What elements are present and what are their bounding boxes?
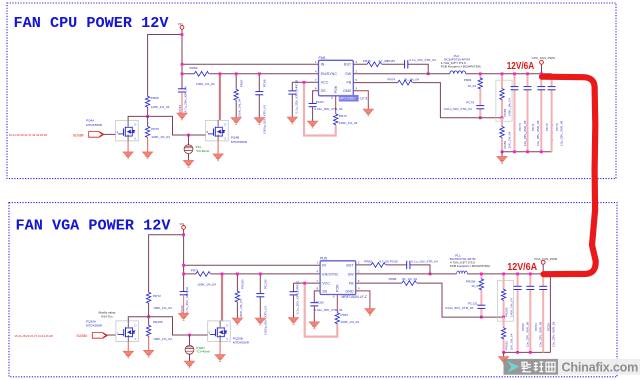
svg-text:10u_25V_X5R_06: 10u_25V_X5R_06 [551,321,555,347]
svg-text:PR76: PR76 [363,59,371,63]
junction VIN [181,33,184,36]
svg-text:PC62: PC62 [180,305,184,313]
svg-text:PC54: PC54 [534,323,538,331]
svg-text:PC60: PC60 [316,300,324,304]
transistor PQ20A [116,321,138,342]
ground PC62 [178,313,188,320]
ground bus bottom [504,352,551,356]
svg-text:100K_1%_04: 100K_1%_04 [151,105,170,109]
svg-text:4.7u_25V_X5R_06: 4.7u_25V_X5R_06 [185,287,189,313]
svg-text:0.1u_10V_XTR_04: 0.1u_10V_XTR_04 [411,260,438,264]
capacitor PC89 [405,60,408,68]
inductor PL2 [450,71,466,74]
svg-text:PR66: PR66 [151,96,159,100]
resistor PR291 [503,317,505,352]
wire net SS bottom [314,291,320,303]
svg-text:VIN: VIN [179,222,184,226]
svg-text:PC130: PC130 [263,279,267,289]
ground PC60 [309,322,319,329]
svg-text:PC61: PC61 [296,280,300,288]
svg-text:GND: GND [343,89,352,93]
svg-text:PC59: PC59 [390,260,398,264]
svg-text:1: 1 [315,60,317,64]
junction ground bus left [501,150,504,153]
svg-text:SW: SW [348,272,354,276]
capacitor PC65 [288,91,296,94]
svg-text:PR294: PR294 [466,279,476,283]
svg-text:FB: FB [349,282,354,286]
resistor PR295 [146,325,150,337]
port SUS8# top [89,132,104,138]
svg-text:PR295: PR295 [153,320,163,324]
svg-text:100K_1%_04: 100K_1%_04 [151,135,170,139]
capacitor PC64 [178,89,186,92]
svg-text:PR71: PR71 [191,269,199,273]
svg-text:PR98: PR98 [389,277,397,281]
jumper PJ4 [188,135,190,160]
svg-text:0.1u_25V_XTR_04: 0.1u_25V_XTR_04 [296,288,300,315]
wire net EN bottom [184,273,321,275]
svg-text:MTDK556R: MTDK556R [86,123,103,127]
resistor PR292 chain (pink net) [503,274,505,317]
wire PQ4B drain (pink net) [219,74,221,121]
ground PU6 [363,109,373,116]
wire net IN [182,63,319,65]
hand-drawn red annotation line [542,77,596,275]
resistor PR70 [145,126,149,138]
svg-text:2: 2 [358,270,360,274]
junction IN bottom [182,264,185,267]
svg-text:-LF-Z: -LF-Z [359,97,367,101]
resistor PR294 chain [480,274,482,317]
wire VIN drop and branch [148,29,182,95]
resistor PR97 [335,312,339,324]
svg-text:PC70: PC70 [555,123,559,131]
junction VIN bottom [182,233,185,236]
svg-text:*CV-40mil: *CV-40mil [196,350,210,354]
wire PQ20A source [127,342,129,352]
svg-text:PC65: PC65 [294,79,298,87]
svg-text:10_04: 10_04 [468,84,477,88]
junction PR290 [236,273,239,276]
svg-text:1000p_50V_XTR_04: 1000p_50V_XTR_04 [263,306,267,335]
svg-text:3K_1%_04: 3K_1%_04 [402,277,417,281]
svg-text:100K_1%_04: 100K_1%_04 [239,299,243,318]
junction PJ4 node [187,134,190,137]
wire PQ4A drain to gate of PQ4B [128,116,206,135]
svg-text:VGA_FAN_PWR: VGA_FAN_PWR [534,257,558,261]
ground bus symbol bottom [498,357,508,364]
resistor PR76 [367,62,382,67]
op-amp U1 : regulator PU6 [315,56,357,100]
wire PR66 to junction [147,108,149,126]
ground PQ20A [123,351,133,358]
wire 12V rail bottom [467,274,550,353]
svg-text:PR74: PR74 [387,78,395,82]
svg-text:VCC: VCC [322,282,330,286]
resistor PR290 [236,274,238,318]
svg-text:140K_1%_04: 140K_1%_04 [509,298,513,317]
capacitor PC63 [309,104,317,107]
wire net BST [353,64,428,74]
svg-text:PCB Footprint = BCIHP0730A: PCB Footprint = BCIHP0730A [450,264,490,268]
svg-text:MTDK556R: MTDK556R [86,324,103,328]
svg-text:PC79: PC79 [466,100,474,104]
sheet border box 1 (FAN CPU POWER) [7,3,616,179]
svg-text:VCC: VCC [321,81,329,85]
svg-text:PC53: PC53 [547,323,551,331]
svg-text:6: 6 [333,295,335,299]
wire net IN bottom [184,264,321,266]
svg-text:15,21,28,29,31,37,43,44,46,48: 15,21,28,29,31,37,43,44,46,48 [15,334,54,338]
resistor PR66 [145,96,149,108]
svg-text:0.01u_50V_XTR_04: 0.01u_50V_XTR_04 [444,107,472,111]
transistor PQ20B [208,321,231,342]
ground PU5 [365,309,375,316]
ground PC64 [177,113,187,120]
svg-text:PR67: PR67 [239,79,243,87]
svg-text:4: 4 [315,70,317,74]
ground PQ4B [213,154,223,161]
wire PQ20B drain (pink net) [221,274,223,321]
svg-text:SUS8#: SUS8# [73,133,84,137]
junction drain bottom [221,273,224,276]
svg-text:CPU_FAN_PWR: CPU_FAN_PWR [532,56,556,60]
svg-text:PR291: PR291 [505,341,509,351]
svg-text:8: 8 [315,87,317,91]
svg-text:PR292: PR292 [505,307,509,317]
svg-text:15,21,25,29,31,37,43,44,46,48: 15,21,25,29,31,37,43,44,46,48 [9,133,48,137]
junction VCC bottom [303,282,306,285]
capacitor PC59 [407,261,410,269]
svg-text:*CV-40mil: *CV-40mil [196,149,210,153]
jumper PJ207 [189,335,191,361]
wire net FB bottom [356,283,504,317]
capacitor PC60 [310,303,318,306]
ground PQ20B [215,355,225,362]
resistor PR83 chain (pink net) [501,74,503,118]
svg-text:EN/SYNC: EN/SYNC [321,72,338,76]
ground PR70 [142,152,152,159]
junction rail CPU_FAN_PWR [540,72,543,75]
resistor PR67 [235,74,237,118]
wire net BST bottom [356,265,430,274]
svg-text:PR95: PR95 [364,260,372,264]
capacitor PC71 [527,74,529,152]
svg-text:BST: BST [344,63,352,67]
transistor PQ4A [116,120,139,141]
svg-text:100K_1%_04: 100K_1%_04 [153,306,172,310]
junction PR67 [235,72,238,75]
resistor PR72 [146,292,150,304]
resistor PR82 [501,118,503,152]
svg-text:PC71: PC71 [531,123,535,131]
op-amp U2 : regulator PU5 [317,257,360,299]
ground PC66 [254,118,264,125]
svg-text:0.1u_10V_XTR_04: 0.1u_10V_XTR_04 [409,58,436,62]
svg-text:PC73: PC73 [518,123,522,131]
wire PR70 to ground [147,138,149,152]
svg-text:BST: BST [346,263,354,267]
junction BST-SW [427,72,430,75]
ground bus [502,152,552,157]
junction ground bus left bottom [502,351,505,354]
capacitor PC62 [180,292,188,295]
resistor PR71 [196,272,211,277]
svg-text:PC89: PC89 [387,59,395,63]
resistor PR81 chain [479,74,481,118]
svg-text:SS: SS [322,289,327,293]
junction EN bottom [182,273,185,276]
svg-text:140K_1%_04: 140K_1%_04 [508,98,512,117]
wire net SS [313,91,319,104]
svg-text:PC131: PC131 [468,301,478,305]
ground PC130 [255,318,265,325]
svg-text:MP8715GN-LF-Z: MP8715GN-LF-Z [342,295,367,299]
junction PR292 FB [502,316,505,319]
resistor PR95 [371,263,386,268]
svg-text:PC64: PC64 [178,105,182,113]
svg-text:9: 9 [355,87,357,91]
junction EN [181,72,184,75]
wire POK pull-up to VCC (pink net) [304,82,336,135]
svg-text:VIN: VIN [178,22,183,26]
wire PR72 to junction [148,304,150,325]
resistor PR74 [398,80,413,85]
capacitor PC72 [540,74,542,152]
svg-text:10u_25V_X5R_06: 10u_25V_X5R_06 [538,321,542,347]
junction PJ207 node [188,334,191,337]
wire net GND of PU6 [353,91,368,109]
svg-text:SW: SW [345,72,351,76]
ground PQ4A [123,152,133,159]
svg-text:POK: POK [335,284,339,292]
svg-text:PR69: PR69 [190,66,198,70]
ground PJ207 [184,361,194,368]
watermark chinafix [504,359,640,375]
inductor PL1 [457,271,468,274]
svg-text:2K_1%_04: 2K_1%_04 [404,78,419,82]
svg-text:PR97: PR97 [341,313,349,317]
wire SUS8# to gate bottom [108,334,116,336]
value MP2105DJ-LF-Z highlighted [339,95,359,102]
junction PC66 [258,72,261,75]
ground PR295 [143,350,153,357]
wire SUS8# to gate [104,133,116,135]
svg-text:100K_1%_04: 100K_1%_04 [238,98,242,117]
svg-text:2: 2 [355,70,357,74]
box feedback divider bottom [497,281,513,322]
node VIN (top) [180,26,184,30]
svg-text:PC52: PC52 [521,323,525,331]
junction drain [219,72,222,75]
capacitor PC79 [476,106,484,109]
svg-text:5: 5 [358,279,360,283]
svg-text:12V/6A: 12V/6A [507,61,535,72]
junction IN [181,63,184,66]
junction PC79-FB [479,116,482,119]
capacitor PC54 [529,274,531,353]
wire POK stub [335,96,337,113]
svg-text:6: 6 [331,96,333,100]
svg-text:7: 7 [315,78,317,82]
svg-text:8: 8 [317,287,319,291]
wire 12V rail [466,73,552,75]
svg-text:PR70: PR70 [151,127,159,131]
svg-text:PC66: PC66 [262,79,266,87]
transistor PQ4B [206,120,229,141]
svg-text:PU5: PU5 [320,257,327,261]
svg-text:4/14 Tim: 4/14 Tim [101,315,113,319]
capacitor PC130 [259,274,261,318]
wire POK stub bottom [336,295,338,313]
wire net VCC bottom [294,283,321,292]
svg-text:12V/6A: 12V/6A [507,262,537,273]
ground PC63 [307,121,317,128]
svg-text:SUS8#: SUS8# [76,334,87,338]
wire net VCC [292,82,318,91]
svg-text:0.1u_25V_XTR_04: 0.1u_25V_XTR_04 [294,87,298,114]
wire PQ4B source [217,141,219,154]
wire VIN drop and branch (bottom) [149,229,184,291]
ground PJ4 [183,160,193,167]
svg-text:0.01u_50V_XTR_04: 0.01u_50V_XTR_04 [445,306,473,310]
ground PR290 [232,318,242,325]
svg-text:7: 7 [317,279,319,283]
svg-text:IN: IN [322,263,326,267]
svg-text:Chinafix.com: Chinafix.com [562,361,639,375]
wire PR295 to ground [148,337,150,351]
box feedback divider [496,80,512,121]
junction PR81 rail [479,72,482,75]
junction PR83 FB [501,116,504,119]
junction gate-divider [146,115,149,118]
svg-text:1: 1 [317,261,319,265]
ground bus symbol [497,156,507,163]
svg-text:SS: SS [321,89,326,93]
capacitor PC53 [542,274,544,353]
wire net SW [353,73,450,75]
svg-text:0.01u_50V_XTR_04: 0.01u_50V_XTR_04 [314,107,342,111]
junction PR294 rail [480,273,483,276]
svg-text:10_04: 10_04 [471,284,480,288]
svg-text:10K_1%_04: 10K_1%_04 [509,333,513,350]
svg-text:FAN CPU POWER 12V: FAN CPU POWER 12V [14,14,170,32]
junction VCC [303,81,306,84]
svg-text:5: 5 [355,78,357,82]
capacitor PC131 [477,305,485,308]
svg-text:100K_1%_04: 100K_1%_04 [339,121,358,125]
wire net GND of PU5 [356,291,370,309]
svg-text:4: 4 [317,270,319,274]
wire POK pull-up (pink net) bottom [305,283,338,337]
svg-text:10u_25V_X5R_08: 10u_25V_X5R_08 [536,120,540,146]
ground PR67 [231,118,241,125]
junction BST-SW bottom [429,273,432,276]
svg-text:IN: IN [321,63,325,67]
svg-text:PC63: PC63 [316,100,324,104]
wire net FB [353,83,502,118]
svg-text:4.7u_25V_X5R_06: 4.7u_25V_X5R_06 [184,86,188,112]
junction PR83 rail [501,72,504,75]
svg-text:PU6: PU6 [319,56,326,60]
svg-text:4.7_06: 4.7_06 [379,260,389,264]
svg-text:10u_25V_X5R_08: 10u_25V_X5R_08 [560,120,564,146]
svg-text:0.01u_50V_XTR_04: 0.01u_50V_XTR_04 [314,308,342,312]
svg-text:PR83: PR83 [503,109,507,117]
svg-text:PCB Footprint = BCIHP0730A: PCB Footprint = BCIHP0730A [441,64,481,68]
svg-text:PC72: PC72 [545,123,549,131]
svg-text:PR72: PR72 [153,294,161,298]
sheet border box 2 (FAN VGA POWER) [9,203,617,377]
svg-text:10K_1%_04: 10K_1%_04 [508,131,512,148]
svg-text:PR82: PR82 [503,141,507,149]
capacitor PC70 [551,74,553,152]
svg-text:100K_1%_04: 100K_1%_04 [196,82,215,86]
resistor PR73 [334,113,338,125]
wire PQ20B source [219,342,221,355]
resistor PR98 [402,281,417,286]
svg-text:FB: FB [346,81,351,85]
svg-text:100K_1%_04: 100K_1%_04 [197,282,216,286]
capacitor PC66 [258,74,260,118]
svg-text:PR73: PR73 [339,114,347,118]
node VIN (bottom) [182,226,186,230]
svg-text:3: 3 [355,60,357,64]
svg-text:3: 3 [358,261,360,265]
svg-text:POK: POK [334,85,338,93]
svg-text:PR81: PR81 [464,78,472,82]
svg-text:9: 9 [358,287,360,291]
junction PR292 rail [502,273,505,276]
svg-text:MTDK556R: MTDK556R [231,140,248,144]
svg-text:EN/SYNC: EN/SYNC [322,272,339,276]
ground PC61 [288,318,298,325]
svg-text:FAN VGA POWER 12V: FAN VGA POWER 12V [16,216,172,234]
svg-text:MTDK556R: MTDK556R [233,341,250,345]
junction PC131-FB [480,316,483,319]
capacitor PC73 [514,74,516,152]
svg-text:PR290: PR290 [241,279,245,289]
svg-text:10u_25V_X5R_08: 10u_25V_X5R_08 [523,120,527,146]
svg-text:100K_1%_04: 100K_1%_04 [341,320,360,324]
junction gate-divider bottom [147,315,150,318]
svg-text:100K_1%_04: 100K_1%_04 [153,337,172,341]
junction PC130 [259,273,262,276]
svg-text:MP2105DJ: MP2105DJ [339,97,356,101]
svg-text:GND: GND [345,289,354,293]
wire net SW bottom [356,273,457,275]
svg-text:10u_25V_X5R_06: 10u_25V_X5R_06 [526,321,530,347]
port SUS8# bottom [92,333,107,339]
capacitor PC61 [290,292,298,295]
wire net EN left part [182,73,319,75]
wire PQ4A source [127,141,129,152]
ground PC65 [287,117,297,124]
wire PQ20A drain to gate of PQ20B [128,317,207,335]
resistor PR69 [194,71,209,76]
capacitor PC52 [517,274,519,353]
